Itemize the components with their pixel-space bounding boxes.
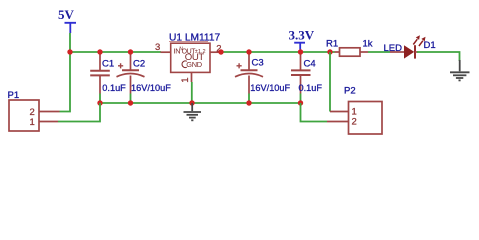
wire U1 GND down xyxy=(191,82,193,103)
svg-text:3.3V: 3.3V xyxy=(289,28,315,43)
junction OUT xyxy=(218,49,223,54)
junction U1 GND xyxy=(189,100,194,105)
ground right xyxy=(450,60,470,80)
capacitor C1 xyxy=(90,52,110,94)
junction C2 top xyxy=(128,49,133,54)
power symbol 3.3V xyxy=(289,28,315,50)
svg-text:0.1uF: 0.1uF xyxy=(102,83,126,93)
wire 3.3V stem xyxy=(300,50,302,53)
junction C4 / 3.3V xyxy=(298,49,303,54)
capacitor C2 polarized xyxy=(117,52,145,94)
junction C1 top xyxy=(97,49,102,54)
connector P1 xyxy=(8,90,60,131)
svg-text:C4: C4 xyxy=(304,59,316,70)
svg-text:1: 1 xyxy=(180,77,191,82)
connector P2 xyxy=(327,86,382,135)
svg-text:1k: 1k xyxy=(363,39,373,50)
wire 3.3V down to P2 pin 1 xyxy=(329,52,331,112)
wire C1 bottom xyxy=(99,94,101,104)
wire GND rail to P2 pin 2 xyxy=(301,103,328,122)
svg-text:GND: GND xyxy=(186,60,202,69)
junction C2 bottom xyxy=(128,100,133,105)
wire 5V down to rail xyxy=(69,33,71,52)
wire mid rail (GND net) xyxy=(100,102,301,104)
junction C3 bottom xyxy=(246,100,251,105)
pin 1 (GND) xyxy=(191,72,193,82)
svg-text:2: 2 xyxy=(352,117,357,128)
wire C2 bottom xyxy=(130,94,132,104)
wire C4 bottom xyxy=(300,94,302,103)
wire C3 bottom xyxy=(248,94,250,104)
pin 3 (IN) xyxy=(161,51,171,53)
svg-text:C3: C3 xyxy=(252,58,264,69)
svg-text:±1.2: ±1.2 xyxy=(195,49,206,55)
capacitor C4 xyxy=(291,52,311,94)
svg-text:P2: P2 xyxy=(344,86,356,97)
wire 5V junction down to P1 pin 2 xyxy=(60,52,71,112)
wire GND rail to P1 pin 1 xyxy=(58,103,100,122)
junction at 5V xyxy=(67,49,72,54)
capacitor C3 polarized xyxy=(235,52,263,94)
svg-text:C1: C1 xyxy=(102,59,114,70)
junction C4 bottom xyxy=(298,100,303,105)
power symbol 5V xyxy=(58,7,76,33)
wire top rail right (3.3V net) xyxy=(221,51,335,53)
junction C3 top xyxy=(246,49,251,54)
wire LED to ground xyxy=(417,52,460,61)
svg-text:1: 1 xyxy=(30,117,35,128)
svg-text:16V/10uF: 16V/10uF xyxy=(131,83,171,93)
svg-text:3: 3 xyxy=(155,42,160,53)
junction C1 bottom xyxy=(97,100,102,105)
op-amp U1 LM1117 regulator xyxy=(169,33,220,73)
svg-text:5V: 5V xyxy=(58,7,75,22)
LED D1 xyxy=(390,35,426,58)
svg-text:C2: C2 xyxy=(133,59,145,70)
junction R1 branch xyxy=(327,49,332,54)
ground left xyxy=(184,103,202,120)
svg-text:D1: D1 xyxy=(424,40,436,51)
svg-text:0.1uF: 0.1uF xyxy=(299,83,323,93)
wire R1 to LED xyxy=(368,51,390,53)
svg-text:16V/10uF: 16V/10uF xyxy=(250,83,290,93)
pin 2 (OUT) xyxy=(210,51,222,53)
resistor R1 xyxy=(335,48,369,56)
wire top rail left (5V net) xyxy=(70,51,161,53)
svg-text:R1: R1 xyxy=(326,39,338,50)
